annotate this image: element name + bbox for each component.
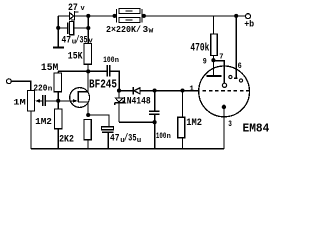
- label 27 v: [68, 2, 86, 14]
- label 47u/35v bottom: [110, 133, 141, 145]
- svg-text:v: v: [81, 5, 86, 13]
- node dot row 1M2 tap: [180, 88, 184, 92]
- pot wiper arrowhead: [35, 99, 40, 103]
- tube anode wire: [212, 60, 214, 75]
- svg-text:1M2: 1M2: [186, 118, 202, 129]
- label 220n: [33, 82, 52, 93]
- label 2x220K/3w: [106, 24, 154, 36]
- resistor 15K: [84, 44, 92, 65]
- label 100n top: [103, 55, 119, 65]
- capacitor 47u/35v bypass plate box: [102, 127, 114, 130]
- wire 220K left bar: [116, 9, 118, 23]
- svg-text:n: n: [48, 86, 53, 94]
- resistor 470k: [211, 34, 217, 56]
- terminal +b: [246, 14, 251, 19]
- pin 6 label: [238, 61, 242, 71]
- node dot B-rail: [86, 14, 90, 18]
- terminal input: [6, 79, 11, 84]
- wire 15M top stub: [57, 71, 59, 73]
- capacitor 220n plates: [43, 95, 46, 106]
- svg-text:1M: 1M: [13, 99, 26, 108]
- node dot cap bottom: [153, 120, 157, 124]
- wire top rail right segment: [142, 15, 246, 17]
- capacitor 100n filter plates: [149, 111, 159, 114]
- svg-text:100: 100: [156, 131, 167, 141]
- wire cathode down: [223, 105, 225, 149]
- wire 220n to gate node: [46, 100, 58, 102]
- label BF245: [89, 79, 117, 92]
- label 1N4148: [122, 96, 151, 107]
- node dot pin6 tap: [234, 14, 238, 18]
- gate arrow: [73, 99, 78, 103]
- wire gate to 1M2: [57, 101, 59, 109]
- node dot source: [86, 113, 90, 117]
- label +b: [244, 18, 254, 29]
- resistor 220K upper: [119, 9, 140, 14]
- svg-text:/35: /35: [124, 133, 137, 145]
- label 15K: [68, 51, 83, 63]
- svg-text:EM84: EM84: [243, 121, 270, 135]
- resistor 220K lower dash: [125, 19, 132, 21]
- label 1M: [13, 99, 26, 108]
- wire 15M bottom stub: [57, 92, 59, 101]
- svg-text:9: 9: [203, 57, 207, 67]
- wire 1M2 to rail: [57, 129, 59, 149]
- wire row D1 right to tube pin1: [140, 90, 199, 92]
- deflection electrode circle left: [229, 75, 232, 78]
- svg-text:+b: +b: [244, 18, 254, 29]
- svg-text:6: 6: [238, 61, 242, 71]
- diode D2 vertical 1N4148: [115, 91, 123, 123]
- wire node B vertical: [87, 16, 89, 44]
- capacitor 100n coupling plates: [107, 65, 110, 76]
- wire 47u to rail: [107, 132, 109, 149]
- wire drain row right: [88, 70, 106, 72]
- svg-text:1N4148: 1N4148: [122, 96, 151, 107]
- wire bottom rail: [31, 148, 224, 150]
- pin 9 label: [203, 57, 207, 67]
- wire 470k to anode: [212, 56, 214, 61]
- capacitor 47u/35v plate box: [70, 22, 74, 35]
- svg-text:w: w: [149, 26, 154, 35]
- node dot 220K left: [113, 14, 117, 18]
- wire node A vertical: [57, 16, 59, 47]
- wire drain row left to 15M: [58, 70, 88, 72]
- label 15M: [41, 62, 58, 74]
- svg-text:3: 3: [228, 119, 232, 129]
- label 2K2: [59, 133, 74, 145]
- svg-text:BF245: BF245: [89, 79, 117, 92]
- node dot gate: [56, 99, 60, 103]
- node dot B-cap: [86, 26, 90, 30]
- pin 6 tick: [234, 77, 238, 79]
- wire 15K to drain node: [87, 64, 89, 71]
- svg-text:/35: /35: [76, 35, 88, 47]
- label EM84: [243, 121, 270, 135]
- wire D2 bottom to cap node: [119, 121, 155, 123]
- ground: [53, 47, 64, 49]
- tube EM84 envelope: [199, 66, 250, 117]
- resistor 1M2 left: [55, 109, 63, 129]
- svg-text:1M2: 1M2: [35, 117, 52, 127]
- capacitor 47u/35v electrolytic plate line: [67, 23, 69, 34]
- potentiometer 1M: [28, 91, 35, 112]
- pin 1 label: [189, 85, 194, 93]
- svg-text:7: 7: [219, 54, 223, 62]
- svg-text:u: u: [137, 137, 142, 145]
- wire 470k top stub: [212, 16, 214, 34]
- svg-text:470k: 470k: [190, 42, 209, 54]
- wire 1M2 right top stub: [182, 91, 184, 118]
- tube screen dashed line: [203, 90, 249, 92]
- pin 3 label: [228, 119, 232, 129]
- svg-text:2×220K/: 2×220K/: [106, 24, 141, 35]
- node dot drain: [86, 69, 90, 73]
- svg-text:n: n: [167, 133, 171, 141]
- label 100n bottom: [156, 131, 171, 141]
- label 47u/35v top: [62, 35, 94, 47]
- transistor Q1 BF245: [70, 71, 90, 115]
- resistor 15M: [54, 73, 62, 92]
- pin 7 wire: [213, 61, 224, 84]
- svg-text:100: 100: [103, 55, 114, 65]
- resistor 1M2 right: [178, 117, 185, 138]
- svg-text:220: 220: [33, 82, 47, 93]
- pot wiper arrow wire: [39, 100, 42, 102]
- tube grid circle: [222, 83, 226, 87]
- wire 1M2 right bottom stub: [182, 138, 184, 149]
- tube cathode dot: [222, 105, 226, 109]
- wire cap bottom to rail: [154, 114, 156, 149]
- svg-text:2K2: 2K2: [59, 133, 74, 145]
- wire 220K right bar: [141, 9, 143, 23]
- svg-text:27: 27: [68, 2, 78, 14]
- wire cap branch left: [58, 27, 67, 29]
- resistor 220K upper dash: [125, 10, 132, 12]
- zener diode ZD 27v: [70, 11, 79, 20]
- node dot anode: [211, 58, 215, 62]
- svg-text:n: n: [115, 57, 119, 65]
- label 1M2 left: [35, 117, 52, 127]
- resistor 2K2: [84, 120, 91, 140]
- wire 2K2 to rail: [87, 140, 89, 149]
- svg-text:47: 47: [62, 36, 72, 47]
- wire row D1 left: [119, 90, 133, 92]
- wire input to pot: [11, 81, 31, 90]
- svg-text:47: 47: [110, 134, 120, 145]
- svg-text:15K: 15K: [68, 51, 83, 63]
- node dot 220K right: [142, 14, 146, 18]
- deflection electrode circle right: [239, 79, 242, 82]
- wire pot bottom: [30, 111, 32, 149]
- pin 6 wire: [235, 16, 237, 78]
- pin 7 label: [219, 54, 223, 62]
- node dot detector: [117, 89, 121, 93]
- wire source to 47u cap: [88, 115, 109, 127]
- wire cap top stub: [154, 91, 156, 111]
- label 1M2 right: [186, 118, 202, 129]
- wire cap branch right: [74, 27, 89, 29]
- tube anode plate: [207, 75, 222, 77]
- resistor 220K lower: [119, 18, 140, 23]
- svg-text:1: 1: [189, 85, 194, 93]
- node dot row cap tap: [153, 88, 157, 92]
- diode D1 horizontal 1N4148: [133, 87, 140, 94]
- capacitor 47u/35v bypass plate line: [102, 131, 113, 133]
- svg-text:15M: 15M: [41, 62, 58, 74]
- wire top rail middle segment: [75, 15, 117, 17]
- wire top rail left segment: [58, 15, 69, 17]
- wire 100n to corner: [111, 71, 120, 90]
- wire gate: [58, 100, 73, 102]
- node dot A-cap: [56, 26, 60, 30]
- label 470k: [190, 42, 209, 54]
